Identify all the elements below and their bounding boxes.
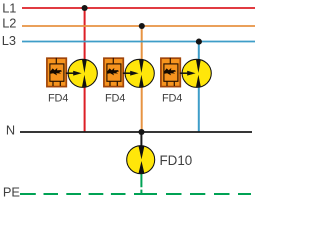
svg-text:N: N xyxy=(6,122,15,137)
svg-text:FD4: FD4 xyxy=(162,92,182,104)
svg-text:L3: L3 xyxy=(2,33,16,48)
svg-text:PE: PE xyxy=(3,184,20,199)
svg-text:FD4: FD4 xyxy=(48,92,68,104)
svg-text:FD4: FD4 xyxy=(105,92,125,104)
svg-text:L2: L2 xyxy=(2,16,16,31)
svg-text:FD10: FD10 xyxy=(160,153,193,168)
svg-text:L1: L1 xyxy=(2,1,16,16)
